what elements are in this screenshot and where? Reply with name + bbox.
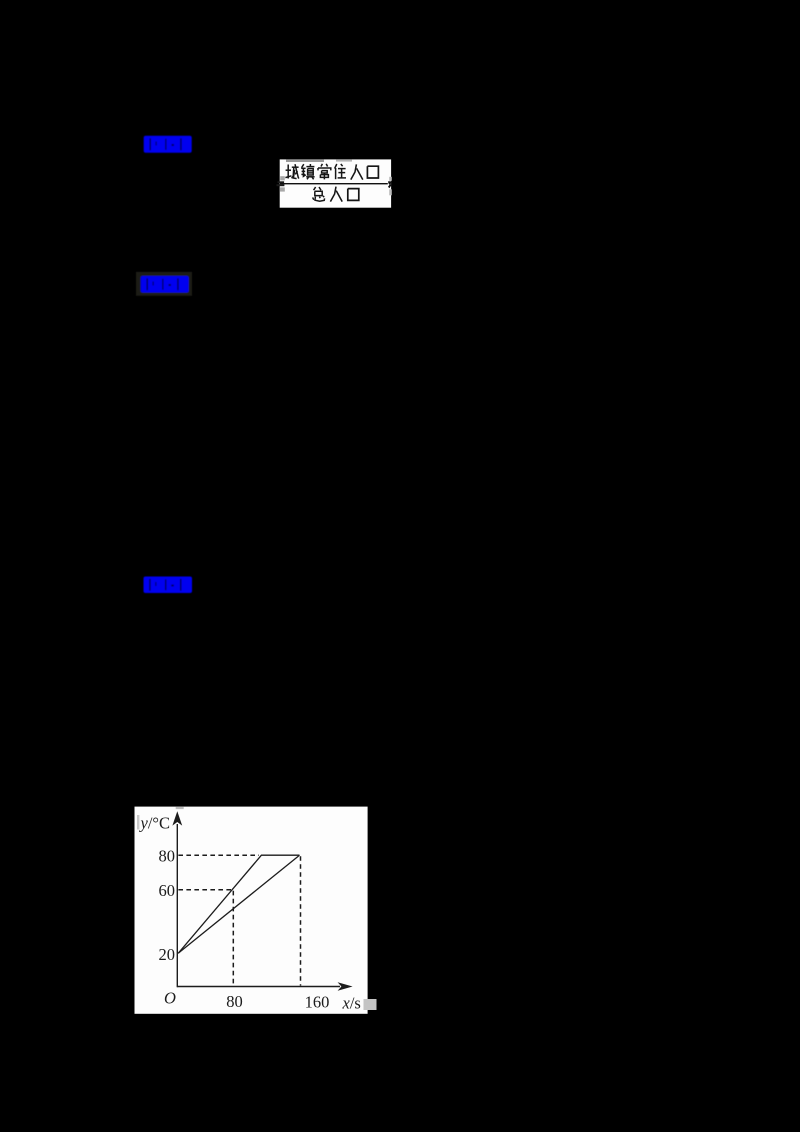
- labels: [139, 814, 361, 1013]
- x axis: [177, 986, 340, 988]
- dashed vertical at 80s: [232, 891, 234, 986]
- equals sign fragment: [278, 181, 285, 183]
- formula image box: [277, 159, 393, 207]
- dashed 80 level: [178, 854, 259, 856]
- numerator: ren: [351, 164, 363, 179]
- svg-text:160: 160: [305, 993, 330, 1012]
- denominator: zong: [313, 187, 325, 201]
- blue tag 3: [144, 577, 193, 594]
- dashed vertical at 150s: [300, 856, 302, 985]
- numerator: cheng: [285, 164, 298, 178]
- blue tag 2 with dark box: [136, 272, 192, 296]
- trailing comma mark: [388, 181, 392, 188]
- svg-text:x/s: x/s: [342, 994, 361, 1013]
- numerator: zhu: [335, 164, 346, 179]
- curve 1 steep: [178, 855, 299, 953]
- denominator: kou2: [348, 189, 359, 201]
- svg-text:y/°C: y/°C: [139, 814, 171, 833]
- svg-text:80: 80: [159, 847, 176, 866]
- svg-text:60: 60: [159, 881, 176, 900]
- x axis arrow: [338, 982, 353, 991]
- chart image box: [135, 807, 377, 1014]
- curve 2 shallow: [178, 855, 299, 953]
- fraction bar: [280, 183, 388, 184]
- denominator: ren2: [330, 187, 342, 202]
- numerator: kou: [367, 166, 378, 178]
- svg-text:O: O: [164, 989, 176, 1008]
- dashed 60 level: [178, 889, 233, 891]
- svg-text:20: 20: [159, 945, 176, 964]
- numerator: chang: [318, 164, 331, 180]
- blue tag 1: [144, 136, 192, 153]
- scan artifacts: [137, 815, 139, 830]
- y axis arrow: [172, 811, 182, 825]
- numerator: zhen: [301, 164, 314, 179]
- svg-text:80: 80: [226, 992, 243, 1011]
- y axis: [176, 824, 178, 987]
